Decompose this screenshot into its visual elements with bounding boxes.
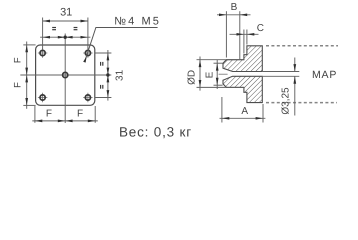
dimension B: [217, 14, 251, 16]
svg-text:Вес: 0,3 кг: Вес: 0,3 кг: [119, 124, 192, 139]
hole ticks bottom-right: [83, 93, 92, 103]
dimension F F left: [26, 42, 28, 109]
dimension F F bottom: [32, 120, 98, 122]
dimension 31 right with equal marks: [107, 50, 109, 101]
extension lines left: [23, 44, 35, 46]
hole M5 top-left: [40, 50, 45, 55]
flange square body: [36, 45, 95, 105]
svg-text:F: F: [77, 108, 83, 119]
extension lines diam 3.25: [263, 71, 299, 73]
phantom dashed line top: [266, 45, 338, 47]
horizontal centerline: [20, 74, 111, 76]
dimension 31 top: [43, 20, 88, 22]
extension lines bottom: [34, 106, 36, 123]
hatching upper half: [223, 46, 262, 72]
svg-text:31: 31: [60, 7, 72, 19]
svg-text:B: B: [231, 2, 238, 13]
centerline tick at bore axis: [219, 73, 228, 75]
hole ticks top-right: [83, 48, 92, 58]
dimension diam D: [199, 57, 201, 91]
svg-text:31: 31: [115, 69, 126, 81]
extension lines right: [95, 52, 112, 54]
svg-text:C: C: [257, 23, 264, 34]
dimension E: [216, 60, 218, 89]
extension line C left: [243, 30, 245, 54]
extension lines B: [225, 11, 227, 57]
svg-text:Ø3,25: Ø3,25: [280, 87, 291, 115]
extension line C right: [246, 30, 248, 45]
hole ticks top-left: [38, 48, 47, 58]
hole ticks bottom-left: [38, 93, 47, 103]
hole M5 top-right: [85, 50, 90, 55]
svg-text:F: F: [13, 82, 24, 88]
extension lines diam D: [197, 59, 244, 61]
dimension A: [220, 117, 266, 119]
svg-text:F: F: [46, 108, 52, 119]
svg-text:№4 М5: №4 М5: [114, 16, 161, 28]
extension lines top: [42, 18, 44, 51]
phantom dashed line bottom: [266, 102, 337, 104]
svg-text:F: F: [13, 57, 24, 63]
hatching lower half: [223, 76, 262, 102]
section outline lower: [223, 76, 262, 102]
svg-text:МАР: МАР: [312, 69, 337, 81]
svg-text:A: A: [241, 106, 248, 117]
extension ticks E: [214, 62, 223, 64]
svg-text:E: E: [205, 71, 216, 78]
section outline upper: [223, 46, 262, 72]
svg-text:ØD: ØD: [186, 70, 197, 85]
hole M5 bottom-left: [40, 95, 45, 100]
extension lines A: [221, 97, 223, 123]
dimension equal-halves top: [40, 36, 90, 38]
dimension diam 3.25: [294, 58, 296, 72]
leader line No4 M5: [85, 28, 158, 62]
vertical centerline: [64, 34, 66, 124]
hole M5 bottom-right: [85, 95, 90, 100]
center hole: [63, 72, 68, 77]
dimension C: [230, 33, 259, 35]
